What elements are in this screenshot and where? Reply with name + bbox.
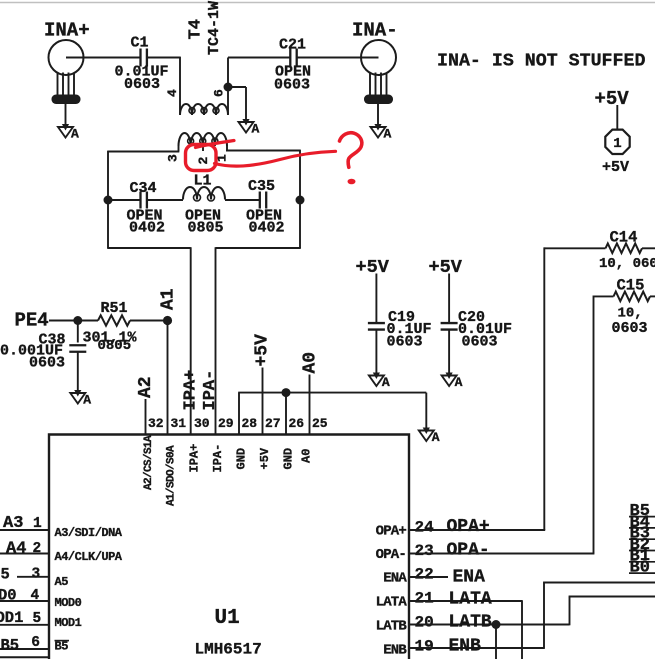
op-amp U1 box xyxy=(49,435,409,659)
wire +5V to C20 xyxy=(448,274,450,323)
svg-text:0603: 0603 xyxy=(462,334,498,351)
node OPA+ label xyxy=(447,517,490,537)
label pin 3 xyxy=(166,154,181,162)
svg-text:2: 2 xyxy=(196,157,211,165)
svg-text:B5: B5 xyxy=(1,637,20,655)
svg-text:C1: C1 xyxy=(131,35,149,52)
node INA+ label xyxy=(44,20,90,42)
svg-text:27: 27 xyxy=(265,416,281,431)
power +5V label C20 xyxy=(429,257,463,278)
node +5V label pin27 xyxy=(253,334,273,367)
wire C15 left xyxy=(594,295,655,297)
svg-text:C35: C35 xyxy=(248,178,275,195)
svg-text:LMH6517: LMH6517 xyxy=(195,641,262,659)
node INA- label xyxy=(352,20,398,42)
wire C21 to INA- xyxy=(297,57,379,59)
wire pin19 ENB xyxy=(409,583,655,649)
svg-text:0402: 0402 xyxy=(129,220,165,237)
note INA- IS NOT STUFFED xyxy=(437,52,645,72)
svg-text:L1: L1 xyxy=(194,173,212,190)
pin 23 name xyxy=(376,547,406,563)
pin 23 number xyxy=(415,542,434,560)
pin 4 wire MOD0 xyxy=(0,600,49,602)
resistor C14 ref xyxy=(610,229,638,247)
wire L1 to C35 xyxy=(225,199,260,201)
node LATB label xyxy=(449,613,492,633)
svg-text:OPA-: OPA- xyxy=(447,541,490,561)
svg-text:A2: A2 xyxy=(136,376,156,398)
pin 30 number xyxy=(194,416,210,431)
ground VA (gnd rail) xyxy=(419,428,440,446)
power symbol octagon 1 xyxy=(605,130,629,154)
pin 25 name A0 xyxy=(300,449,314,463)
pin 28 name GND xyxy=(235,448,249,470)
pin 1 name xyxy=(55,526,123,540)
node B5 label xyxy=(1,635,41,654)
label C35 OPEN xyxy=(246,208,282,225)
svg-text:A: A xyxy=(71,127,79,142)
junction right rail xyxy=(296,196,305,205)
capacitor C38 xyxy=(39,332,87,352)
svg-text:0402: 0402 xyxy=(249,220,285,237)
svg-text:A3/SDI/DNA: A3/SDI/DNA xyxy=(55,526,123,540)
svg-text:IPA-: IPA- xyxy=(201,370,220,411)
label L1 footprint xyxy=(188,220,224,237)
svg-text:5: 5 xyxy=(1,566,10,584)
annotation red circle on pin2 xyxy=(186,145,217,171)
svg-text:A3: A3 xyxy=(3,514,23,533)
power +5V label C19 xyxy=(356,257,390,278)
capacitor C35 xyxy=(248,178,275,209)
label pin 6 xyxy=(212,89,227,97)
wire pin22 stub xyxy=(409,576,448,578)
svg-text:A5: A5 xyxy=(55,575,69,589)
pin 24 name xyxy=(376,524,407,540)
ground VA (C19) xyxy=(369,373,390,391)
transformer T4 value xyxy=(206,1,223,55)
svg-text:A1: A1 xyxy=(159,288,179,310)
svg-text:LATB: LATB xyxy=(376,618,408,634)
svg-text:OPA-: OPA- xyxy=(376,547,406,563)
svg-text:INA-: INA- xyxy=(352,20,398,42)
ground VA (INA+ shield) xyxy=(58,124,79,142)
resistor C15 ref xyxy=(617,277,645,295)
resistor C14 xyxy=(606,244,643,254)
svg-text:29: 29 xyxy=(218,416,234,431)
label C21 OPEN xyxy=(275,64,311,81)
svg-text:22: 22 xyxy=(415,565,434,583)
label R51 value xyxy=(83,330,138,347)
label C19 footprint xyxy=(387,334,423,351)
pin 32 name A2/CS/S1A xyxy=(143,435,155,490)
wire C14 left xyxy=(544,247,655,249)
node MOD0 label xyxy=(0,587,40,605)
svg-text:6: 6 xyxy=(31,635,40,651)
ground VA (T4 pin6) xyxy=(239,119,260,137)
svg-text:A: A xyxy=(83,393,91,408)
pin 25 number xyxy=(312,416,328,431)
wire pin21 LATA xyxy=(409,600,522,659)
svg-text:A: A xyxy=(455,375,463,390)
label R51 footprint xyxy=(98,338,132,354)
node B3 label xyxy=(629,525,655,544)
capacitor C1 xyxy=(131,35,149,67)
pin 27 number xyxy=(265,416,281,431)
svg-text:6: 6 xyxy=(212,89,227,97)
svg-text:32: 32 xyxy=(148,416,164,431)
svg-text:LATA: LATA xyxy=(449,590,492,610)
junction PE4/C38 xyxy=(73,316,82,325)
ground VA (INA- shield) xyxy=(371,124,392,142)
svg-text:R51: R51 xyxy=(101,300,128,317)
power +5V label top xyxy=(595,88,630,110)
junction left rail xyxy=(104,196,113,205)
wire bus left xyxy=(108,199,140,201)
pin 3 name xyxy=(55,575,69,589)
svg-text:A: A xyxy=(432,430,440,445)
svg-text:A2/CS/S1A: A2/CS/S1A xyxy=(143,435,155,490)
pin 26 name GND xyxy=(282,448,296,470)
svg-text:B0: B0 xyxy=(630,559,650,578)
node A0 label xyxy=(301,352,321,374)
ground VA (C20) xyxy=(442,373,463,391)
wire pin20 LATB xyxy=(409,597,655,626)
node A1 label xyxy=(159,288,179,310)
svg-text:19: 19 xyxy=(415,638,434,656)
wire +5V to pin27 xyxy=(262,368,264,435)
pin 2 name xyxy=(55,550,123,564)
svg-text:MOD1: MOD1 xyxy=(55,616,82,630)
connector J-INA+ xyxy=(49,40,84,124)
wire A1 to pin31 xyxy=(167,321,169,435)
svg-text:30: 30 xyxy=(194,416,210,431)
pin 22 name xyxy=(383,570,407,586)
ground VA (C38) xyxy=(70,390,91,408)
junction LATB xyxy=(492,620,501,629)
gnd rail pins 28/26 xyxy=(238,393,426,435)
wire C1 to T4 pin4 xyxy=(147,57,180,114)
svg-text:4: 4 xyxy=(165,89,180,97)
svg-text:25: 25 xyxy=(312,416,328,431)
svg-text:ENB: ENB xyxy=(383,643,407,659)
pin 7 wire partial xyxy=(0,656,49,658)
label C15 footprint xyxy=(612,320,648,337)
pin 3 wire A5 xyxy=(17,576,49,578)
svg-text:0603: 0603 xyxy=(29,355,65,372)
svg-text:A0: A0 xyxy=(300,449,314,463)
svg-text:24: 24 xyxy=(415,519,435,537)
wire R51 to A1 xyxy=(130,320,168,322)
svg-text:+5V: +5V xyxy=(253,334,273,367)
svg-text:A1/SDO/S0A: A1/SDO/S0A xyxy=(166,445,178,506)
svg-text:0805: 0805 xyxy=(98,338,132,354)
inductor L1 xyxy=(183,173,225,202)
svg-text:0603: 0603 xyxy=(387,334,423,351)
label C14 value xyxy=(599,256,655,272)
node IPA- label xyxy=(201,370,220,411)
svg-text:OD1: OD1 xyxy=(0,609,23,627)
transformer T4 primary xyxy=(180,104,228,115)
op-amp U1 ref xyxy=(215,607,240,630)
svg-text:C21: C21 xyxy=(279,37,306,54)
svg-text:ENA: ENA xyxy=(383,570,407,586)
svg-text:26: 26 xyxy=(289,416,305,431)
svg-text:PE4: PE4 xyxy=(15,310,49,332)
node PE4 label xyxy=(15,310,49,332)
pin 5 wire MOD1 xyxy=(0,624,49,626)
wire T4 pin2 stub xyxy=(202,146,204,151)
wire C38 to ground xyxy=(77,352,79,390)
svg-text:LATA: LATA xyxy=(376,595,408,611)
svg-text:+5V: +5V xyxy=(258,447,272,469)
wire pin26 stub xyxy=(285,393,287,435)
label pin 4 xyxy=(165,89,180,97)
svg-text:A: A xyxy=(252,122,260,137)
svg-text:U1: U1 xyxy=(215,607,240,630)
svg-text:31: 31 xyxy=(171,416,187,431)
svg-text:D0: D0 xyxy=(0,587,17,605)
svg-text:0603: 0603 xyxy=(612,320,648,337)
pin 29 number xyxy=(218,416,234,431)
label pin 2 xyxy=(196,157,211,165)
node IPA+ label xyxy=(182,370,201,411)
label C34 footprint xyxy=(129,220,165,237)
pin 5 name xyxy=(55,616,82,630)
svg-text:T4: T4 xyxy=(187,19,206,39)
node B4 label xyxy=(629,513,655,532)
svg-text:23: 23 xyxy=(415,542,434,560)
label C20 footprint xyxy=(462,334,498,351)
wire pin6 to VA xyxy=(228,87,246,119)
pin 6 wire B5 xyxy=(0,648,49,650)
node A5 label xyxy=(1,566,41,584)
svg-text:4: 4 xyxy=(31,588,40,604)
svg-text:2: 2 xyxy=(33,541,42,557)
svg-text:MOD0: MOD0 xyxy=(55,596,82,610)
transformer T4 ref xyxy=(187,19,206,39)
label C1 footprint xyxy=(124,76,160,93)
wire T4 pin3 to left rail xyxy=(108,146,179,200)
pin 20 number xyxy=(415,613,434,631)
annotation red question mark xyxy=(340,133,362,168)
svg-text:10, 0603: 10, 0603 xyxy=(599,256,655,272)
capacitor C19 xyxy=(368,309,415,330)
capacitor C21 xyxy=(279,37,306,67)
svg-text:+5V: +5V xyxy=(429,257,463,278)
wire INA+ to C1 xyxy=(66,57,140,59)
svg-text:21: 21 xyxy=(415,590,434,608)
svg-text:A: A xyxy=(384,127,392,142)
wire left rail down to IPA+ xyxy=(107,200,191,435)
resistor C15 xyxy=(614,292,651,302)
svg-text:+5V: +5V xyxy=(356,257,390,278)
svg-text:OPA+: OPA+ xyxy=(447,517,490,537)
svg-text:1: 1 xyxy=(613,136,621,152)
wire LATB down xyxy=(495,625,497,659)
svg-text:ENB: ENB xyxy=(449,637,482,657)
annotation red swoosh xyxy=(215,151,336,166)
pin 31 number xyxy=(171,416,187,431)
pin 28 number xyxy=(242,416,258,431)
node A4 label xyxy=(6,540,41,559)
svg-text:3: 3 xyxy=(32,566,41,582)
svg-text:TC4-1W: TC4-1W xyxy=(206,1,223,55)
pin 4 name xyxy=(55,596,82,610)
capacitor C20 xyxy=(441,309,485,330)
svg-text:GND: GND xyxy=(282,448,296,470)
annotation red tail xyxy=(196,141,235,148)
svg-text:ENA: ENA xyxy=(453,568,486,588)
capacitor C34 xyxy=(130,180,157,209)
svg-text:OPA+: OPA+ xyxy=(376,524,407,540)
svg-text:1: 1 xyxy=(33,516,42,532)
node A3 label xyxy=(3,514,42,533)
node MOD1 label xyxy=(0,609,41,627)
pin 2 wire A4 xyxy=(0,553,49,555)
svg-text:C34: C34 xyxy=(130,180,157,197)
wire PE4 down to C38 xyxy=(77,321,79,343)
label L1 OPEN xyxy=(185,208,221,225)
annotation red dot xyxy=(348,179,356,185)
svg-text:IPA+: IPA+ xyxy=(182,370,201,411)
resistor R51 xyxy=(98,300,130,326)
svg-text:0603: 0603 xyxy=(124,76,160,93)
node ENB label xyxy=(449,637,482,657)
label C38 value xyxy=(0,343,63,360)
svg-text:3: 3 xyxy=(166,154,181,162)
pin 19 number xyxy=(415,638,434,656)
pin 32 number xyxy=(148,416,164,431)
pin 6 name xyxy=(55,640,70,654)
wire pin23 OPA- xyxy=(409,553,594,555)
wire A0 to pin25 xyxy=(309,375,311,435)
transformer T4 secondary xyxy=(179,133,228,146)
svg-text:C15: C15 xyxy=(617,277,645,295)
pin 31 name A1/SDO/S0A xyxy=(166,445,178,506)
label C38 footprint xyxy=(29,355,65,372)
svg-text:C14: C14 xyxy=(610,229,638,247)
svg-text:GND: GND xyxy=(235,448,249,470)
svg-text:IPA+: IPA+ xyxy=(188,444,202,473)
label C34 OPEN xyxy=(127,208,163,225)
svg-text:INA- IS NOT STUFFED: INA- IS NOT STUFFED xyxy=(437,52,645,72)
pin 30 name IPA+ xyxy=(188,444,202,473)
wire pin24 OPA+ xyxy=(409,529,545,531)
label C1 value xyxy=(115,64,169,81)
pin 26 number xyxy=(289,416,305,431)
svg-text:0603: 0603 xyxy=(274,77,310,94)
node ENA label xyxy=(453,568,486,588)
junction A1 xyxy=(163,316,172,325)
svg-text:5: 5 xyxy=(33,611,42,627)
svg-text:A4/CLK/UPA: A4/CLK/UPA xyxy=(55,550,123,564)
node LATA label xyxy=(449,590,492,610)
node A2 label xyxy=(136,376,156,398)
svg-text:INA+: INA+ xyxy=(44,20,90,42)
wire C20 to ground xyxy=(448,330,450,373)
label C21 footprint xyxy=(274,77,310,94)
connector J-INA- xyxy=(361,40,396,124)
svg-text:+5V: +5V xyxy=(595,88,630,110)
pin 21 name xyxy=(376,595,408,611)
wire A2 to pin32 xyxy=(145,399,147,435)
svg-text:+5V: +5V xyxy=(602,159,629,176)
svg-text:IPA-: IPA- xyxy=(211,444,225,473)
svg-text:0805: 0805 xyxy=(188,220,224,237)
node B1 label xyxy=(629,547,655,566)
svg-text:28: 28 xyxy=(242,416,258,431)
label C20 value xyxy=(458,321,512,338)
pin 20 name xyxy=(376,618,408,634)
wire C15 down to OPA- xyxy=(593,296,595,554)
svg-text:LATB: LATB xyxy=(449,613,492,633)
node OPA- label xyxy=(447,541,490,561)
op-amp U1 value xyxy=(195,641,262,659)
node B2 label xyxy=(629,536,655,555)
svg-text:20: 20 xyxy=(415,613,434,631)
junction pin26 gnd xyxy=(282,388,291,397)
svg-text:A0: A0 xyxy=(301,352,321,374)
wire +5V to octagon xyxy=(616,105,618,129)
pin 29 name IPA- xyxy=(211,444,225,473)
label C19 value xyxy=(387,321,432,338)
node B5 label xyxy=(629,502,655,521)
wire T4 pin6 up xyxy=(227,58,229,115)
pin 22 number xyxy=(415,565,434,583)
wire T4 pin1 to right rail xyxy=(226,146,300,200)
svg-text:A4: A4 xyxy=(6,540,26,559)
wire +5V to C19 xyxy=(375,274,377,323)
pin 24 number xyxy=(415,519,435,537)
wire C14 down to OPA+ xyxy=(543,247,545,530)
wire right rail down to IPA- xyxy=(216,200,301,435)
svg-text:A: A xyxy=(382,375,390,390)
label pin 1 xyxy=(215,154,230,162)
junction pin6 xyxy=(224,83,233,92)
wire C34 to L1 xyxy=(147,199,183,201)
wire PE4 to R51 xyxy=(49,320,98,322)
label C15 value xyxy=(618,306,643,322)
power +5V label bottom xyxy=(602,159,629,176)
pin 27 name +5V xyxy=(258,447,272,469)
pin 19 name xyxy=(383,643,407,659)
wire C19 to ground xyxy=(375,330,377,373)
node B0 label xyxy=(629,559,655,578)
label C35 footprint xyxy=(249,220,285,237)
wire T4 pin6 to C21 xyxy=(228,57,290,59)
svg-text:B5: B5 xyxy=(55,640,69,654)
pin 1 wire A3 xyxy=(0,529,49,531)
pin 21 number xyxy=(415,590,434,608)
